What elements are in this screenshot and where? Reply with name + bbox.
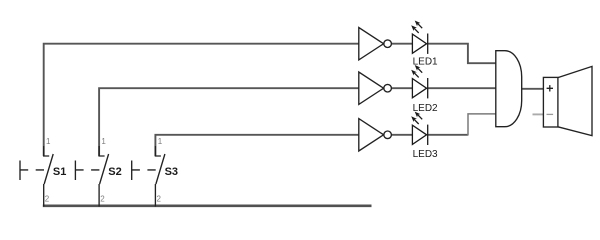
wire: LED1 cathode to AND gate input 1 [428,44,496,64]
svg-text:LED1: LED1 [413,56,438,67]
AND gate U4 [496,51,522,127]
wire: bottom rail from S1/S2/S3 pin2 [43,205,372,208]
LED2 [412,68,427,98]
wire: U2 output to LED2 anode [392,87,413,89]
svg-text:2: 2 [157,194,162,203]
svg-text:1: 1 [46,137,51,146]
switch S2 [75,146,108,207]
switch S3 [132,146,165,207]
svg-text:1: 1 [158,137,163,146]
svg-text:S2: S2 [108,166,121,178]
wire net2: S2 pin1 to inverter U2 input [99,88,359,156]
wire: U3 output to LED3 anode [392,134,413,136]
speaker + mark [547,85,553,91]
wire net3: S3 pin1 to inverter U3 input [155,135,358,156]
wire stub: speaker - lead (unconnected) [533,113,544,115]
speaker - mark [547,113,554,115]
svg-text:LED2: LED2 [413,103,438,114]
svg-text:LED3: LED3 [413,149,438,160]
svg-text:2: 2 [100,194,105,203]
wire: AND gate output to speaker + [522,88,544,90]
inverter U3 [359,119,392,151]
switch S1 [20,146,53,207]
inverter U2 [359,72,392,104]
wire net1: S1 pin1 to inverter U1 input [44,44,359,156]
LED1 [412,24,427,54]
wire: LED2 cathode to AND gate input 2 [428,87,496,89]
svg-text:S3: S3 [165,166,178,178]
LED3 [412,115,427,145]
svg-text:2: 2 [45,194,50,203]
wire: LED3 cathode to AND gate input 3 [428,134,468,136]
wire: U1 output to LED1 anode [392,43,413,45]
svg-text:S1: S1 [53,166,66,178]
svg-text:1: 1 [101,137,106,146]
inverter U1 [359,28,392,60]
speaker LS1 [543,66,592,135]
